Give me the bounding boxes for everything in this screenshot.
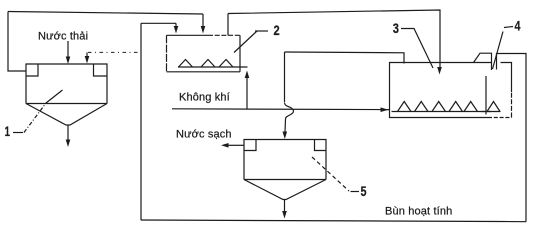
- tank 1 floor line: [26, 103, 107, 105]
- tank 1 hopper: [26, 104, 107, 126]
- arrow: riser head up: [245, 71, 250, 79]
- wire: air line: [172, 108, 389, 111]
- wire: vertical from corner down to crossing hop: [284, 52, 286, 102]
- tank 2 (distribution box) outline: [167, 34, 209, 36]
- tank 3 floor line: [392, 111, 492, 113]
- arrow: tank 5 underflow: [284, 200, 286, 212]
- tank 1 left weir notch: [26, 64, 38, 76]
- label 5 pointer (dashed): [312, 157, 349, 191]
- arrow: outflow left: [221, 143, 229, 148]
- tank 5 right weir notch: [315, 140, 327, 151]
- wire: recycle drop into tank 2: [175, 23, 177, 27]
- arrow: influent into tank 1: [67, 41, 69, 57]
- label 2 pointer: [234, 31, 257, 53]
- svg-text:4: 4: [515, 19, 521, 34]
- arrow into tank 2 (left): [201, 26, 206, 34]
- wire: left riser down to tank 1 inlet: [8, 12, 26, 72]
- wire: clean water outflow from tank 5: [228, 144, 244, 146]
- arrow into tank 1 (recycle branch): [86, 52, 88, 57]
- svg-text:Không khí: Không khí: [179, 92, 230, 104]
- wire: top line from left riser to first inlet arrow of tank 2: [8, 12, 203, 15]
- wire: dashed branch from recycle to tank 1: [88, 51, 139, 53]
- tank 3 outlet weir wall: [474, 53, 492, 70]
- svg-text:3: 3: [393, 21, 400, 36]
- arrow: air into tank 3: [381, 107, 389, 112]
- tank 5 (secondary clarifier) outline: [244, 140, 326, 180]
- svg-text:5: 5: [361, 184, 367, 199]
- arrow into tank 3 (from top line): [437, 67, 442, 75]
- diffuser triangles tank 2: [179, 60, 193, 68]
- tank 1 (primary clarifier) outline: [26, 64, 107, 104]
- arrow into tank 2 (recycle): [174, 26, 179, 34]
- wire: bottom sludge return line: [141, 219, 356, 222]
- svg-text:Nước thải: Nước thải: [38, 30, 88, 42]
- svg-text:1: 1: [5, 124, 11, 139]
- label 4 pointer: [493, 32, 504, 70]
- pointer line for label 1 (dash-dot then solid): [24, 103, 46, 133]
- diffuser triangles tank 3: [398, 102, 412, 112]
- wire: recycle top horizontal to tank 2: [141, 22, 176, 24]
- svg-text:2: 2: [274, 23, 280, 38]
- wire: crossing hop over air line: [285, 103, 294, 120]
- svg-text:Nước sạch: Nước sạch: [176, 129, 232, 141]
- wire: drop into tank 5: [284, 119, 287, 132]
- arrow: tank 1 underflow: [67, 125, 69, 140]
- baffle in tank 3: [485, 76, 487, 115]
- wire: sludge recycle left vertical: [140, 23, 142, 220]
- svg-text:Bùn hoạt tính: Bùn hoạt tính: [385, 206, 452, 218]
- wire: drop into tank 2 (first arrow shaft): [202, 14, 204, 28]
- tank 5 hopper: [244, 180, 326, 200]
- tank 2 floor line with extension: [178, 66, 248, 68]
- tank 3 outlet pipe to right downcomer: [497, 54, 527, 222]
- arrow into tank 5: [283, 132, 288, 140]
- tank 5 left weir notch: [244, 140, 256, 151]
- label 3 pointer: [401, 29, 433, 69]
- tank 3 (aeration tank) outline with top gap for weir channel: [390, 63, 492, 118]
- wire: second top line to tank 3: [228, 10, 440, 68]
- wire: free corner to tank 3 top (overflow line): [285, 52, 405, 64]
- tank 1 right weir notch: [94, 64, 108, 76]
- wire: air riser into tank 2: [246, 76, 248, 109]
- wire: tank 2 top to second top line: [227, 14, 229, 36]
